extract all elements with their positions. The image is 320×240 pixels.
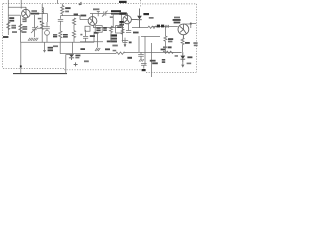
transistor Q4 <box>178 24 189 38</box>
wire collector to dot <box>183 24 196 28</box>
T2 winding tick 2 <box>168 25 169 28</box>
wire long vertical left <box>19 15 21 42</box>
diode D2 vertical <box>137 9 142 29</box>
label bottom-left corner <box>3 36 8 38</box>
resistor R4 <box>59 25 62 42</box>
label mid line 1 <box>53 34 57 35</box>
diode D1 on bus <box>69 54 74 60</box>
transistor Q2 <box>88 17 97 26</box>
wire bus2 horizontal <box>80 41 103 43</box>
label mid T1 <box>110 16 113 18</box>
label Q1 line 2 <box>31 13 39 15</box>
wire between buses <box>71 42 73 53</box>
dashed border top segment 2 <box>142 3 196 5</box>
label above Q2 <box>80 15 86 17</box>
wire long vertical x21 bottom <box>20 42 22 73</box>
wire vertical x122 <box>122 24 124 43</box>
dashed border left <box>2 4 4 69</box>
label R2 upper 2 <box>22 21 26 23</box>
label R12 line 1 <box>168 38 173 40</box>
wire vertical x60 lower <box>59 42 61 53</box>
battery label line 1 <box>48 47 53 49</box>
label right of D3 <box>187 56 192 58</box>
label under R12 <box>161 49 166 51</box>
label R4 line 2 <box>63 36 68 38</box>
label bus2 end <box>107 41 111 43</box>
resistor R5 <box>61 4 64 16</box>
resistor R12 <box>164 26 167 52</box>
arrow down bottom right <box>181 62 184 67</box>
electrolytic C8 bottom <box>141 64 147 69</box>
corner wire box audio <box>141 35 160 37</box>
plus sign marker <box>74 62 78 66</box>
wire bottom bus <box>13 73 67 75</box>
battery label line 2 <box>48 49 53 51</box>
label right of box 2 <box>103 29 107 31</box>
oscillator coil label line 2 <box>9 20 14 22</box>
dashed border bottom-middle <box>64 69 142 71</box>
antenna arrow top <box>79 2 82 5</box>
wire Q1 collector right <box>30 14 47 22</box>
wire vertical x143 <box>144 36 146 65</box>
transformer box small left <box>85 26 90 31</box>
antenna coil L1 <box>42 4 44 29</box>
resistor R8 <box>110 26 113 42</box>
label R4 line 1 <box>63 34 68 36</box>
wire collector top <box>92 14 94 17</box>
IF transformer T1 label line 2 <box>111 13 120 15</box>
label right of box 1 <box>103 27 107 29</box>
wire h y27.6 right <box>132 27 148 29</box>
label D2 line 2 <box>149 17 154 19</box>
label C9 line 2 <box>152 62 158 64</box>
wire corner up right of bus <box>93 32 95 43</box>
label 88 <box>127 57 132 59</box>
label below R2 <box>22 31 27 33</box>
capacitor C7 <box>138 52 144 61</box>
dashed section divider stub top <box>140 0 142 8</box>
wire into Q2 <box>80 19 88 21</box>
wire vertical x97 <box>96 32 98 47</box>
label D1 line 2 <box>75 57 79 59</box>
resistor R13 emitter <box>181 38 184 52</box>
junction tick node A <box>97 11 100 16</box>
label R2 line 2 <box>22 28 27 30</box>
label R1 line 2 <box>11 27 16 29</box>
wire h mid top <box>61 16 81 20</box>
label D2 line 1 <box>143 13 149 15</box>
label right edge <box>193 42 197 44</box>
battery arrow <box>43 42 46 53</box>
dashed border right <box>195 4 197 73</box>
label small below Q1 <box>38 18 42 20</box>
transistor Q3 <box>123 13 137 23</box>
label right marks <box>175 55 178 57</box>
dashed border bottom-right <box>146 71 196 73</box>
wire v mid <box>60 16 62 19</box>
wire Q2 emitter down <box>93 24 94 27</box>
resistor R7 <box>72 31 75 43</box>
ground symbol under x97 <box>95 48 100 51</box>
junction dot collector <box>190 23 192 25</box>
resistor R14 horizontal <box>163 51 182 53</box>
detector box <box>116 26 123 33</box>
wire top-left vertical <box>7 0 9 35</box>
wire bus under T1 <box>93 27 124 29</box>
label left lower <box>80 48 85 50</box>
T2 winding ticks <box>165 25 166 28</box>
wire vertical T1 primary <box>112 14 114 28</box>
transformer T2 winding <box>152 25 178 28</box>
label above Q4 line 0 <box>174 17 180 19</box>
label above Q4 line 1 <box>173 19 181 21</box>
capacitor C2 <box>58 19 63 25</box>
wire vertical x137 <box>138 36 140 52</box>
label x84 lower <box>84 60 89 62</box>
label R2 upper 1 <box>22 18 26 20</box>
wire bus3 horizontal <box>60 53 116 55</box>
electrolytic capacitor C3 <box>44 22 50 42</box>
dark mark on coil <box>40 21 42 23</box>
label R13 <box>185 42 190 44</box>
wire long vertical x151 <box>151 43 153 77</box>
junction blob bottom border <box>142 69 146 71</box>
label right of T1 lower 1 <box>119 21 124 23</box>
dashed border top segment 1 <box>3 3 139 5</box>
resistor R9 horizontal on bus <box>116 52 125 54</box>
wire bus mid horizontal <box>20 41 94 43</box>
label (-) <box>112 45 117 47</box>
wire corner battery feed <box>66 55 72 74</box>
label left of R12 <box>163 46 167 48</box>
volume pot label block 2 <box>110 38 117 40</box>
label below R1 <box>12 31 17 33</box>
transformer box windings <box>95 26 102 33</box>
ground symbol right <box>33 38 38 41</box>
label R1 line 1 <box>11 25 16 27</box>
volume pot label block 3 <box>110 40 117 42</box>
label mic <box>90 35 95 37</box>
label R12 line 2 <box>168 41 172 43</box>
label above C4 <box>93 8 99 10</box>
wire vertical T1 secondary <box>120 15 122 28</box>
label Q1 line 1 <box>31 10 37 12</box>
label bottom right small <box>187 63 192 65</box>
dark tick on x21 <box>20 65 22 67</box>
resistor R11 horizontal <box>148 26 158 28</box>
ground symbol left <box>28 38 33 41</box>
label right of T1 lower 2 <box>119 24 124 26</box>
wire top-left horizontal <box>8 6 26 8</box>
label under box <box>94 32 98 34</box>
wire base horizontal <box>8 14 20 16</box>
label right of C6 <box>133 32 139 34</box>
IF transformer T1 label line 1 <box>111 10 121 12</box>
label R5 line 2 <box>65 11 69 13</box>
label C9 line 1 <box>150 60 156 62</box>
resistor R3 <box>41 23 44 43</box>
label dark mid <box>74 14 78 16</box>
oscillator coil label line 1 <box>9 17 14 19</box>
label D1 line 1 <box>75 55 80 57</box>
label small left stack 2 <box>162 61 165 63</box>
resistor R6 <box>72 18 75 31</box>
resistor R1 <box>7 22 10 30</box>
label above R9 <box>105 48 110 50</box>
label mid line 2 <box>53 36 57 37</box>
label R5 line 1 <box>65 7 70 9</box>
variable capacitor C1 <box>31 15 43 37</box>
section label text top <box>119 1 127 3</box>
trimmer symbol <box>122 38 132 48</box>
volume pot label block <box>110 34 117 36</box>
resistor R2 <box>19 24 22 32</box>
resistor R10 <box>121 29 124 34</box>
label R2 line 1 <box>22 26 27 28</box>
label above Q4 line 2 <box>174 22 181 24</box>
diode D3 output <box>180 52 185 62</box>
capacitor C6 <box>126 24 131 33</box>
wire stub vertical <box>20 0 22 9</box>
wire bus3 right part <box>125 51 182 53</box>
dashed border bottom-left <box>3 68 64 70</box>
capacitor C5 <box>80 30 88 42</box>
antenna stub <box>56 0 58 4</box>
label above Q3 <box>119 12 126 14</box>
label small left stack 1 <box>162 59 165 61</box>
transistor Q1 <box>22 7 31 21</box>
coupling capacitor C4 <box>90 11 113 17</box>
battery label extra <box>53 45 58 47</box>
